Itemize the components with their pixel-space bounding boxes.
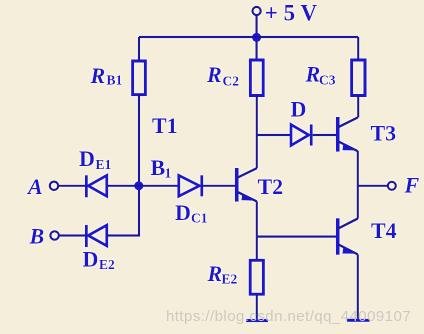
resistor RC2 (250, 60, 263, 96)
wire: T3 emitter down (357, 151, 359, 219)
wire: A to DE1 (58, 185, 85, 187)
diode DE1 (86, 175, 106, 197)
label RB1 (90, 63, 123, 88)
wire: left branch vertical (138, 95, 140, 236)
wire: B1 to DC1 (139, 185, 179, 187)
watermark (166, 308, 424, 325)
svg-text:T2: T2 (258, 174, 284, 199)
svg-text:C1: C1 (191, 211, 208, 226)
resistor RE2 (250, 260, 263, 294)
svg-text:F: F (404, 173, 420, 198)
wire: supply stem (256, 15, 258, 60)
resistor RC3 (352, 60, 365, 96)
wire: bus to RC3 (357, 37, 359, 60)
wire: DE1 to node B1 (107, 185, 139, 187)
wire: branch to diode D (257, 134, 291, 136)
svg-text:D: D (83, 246, 99, 271)
svg-text:B: B (151, 155, 166, 180)
svg-text:R: R (90, 63, 106, 88)
label RE2 (207, 261, 238, 287)
diode D (291, 124, 311, 145)
wire: junction to RE2 (256, 237, 258, 261)
wire: emitter junction to T4 base (257, 236, 336, 238)
wire: DC1 to T2 base (202, 185, 235, 187)
svg-text:B1: B1 (107, 73, 123, 88)
svg-text:D: D (79, 146, 95, 171)
svg-text:R: R (207, 261, 223, 286)
transistor T2 (237, 168, 257, 202)
junction dot on +5V bus (252, 33, 261, 42)
wire: DE2 to left branch (107, 234, 140, 236)
junction dot B1 (134, 181, 143, 190)
wire: bus to RB1 (138, 37, 140, 61)
wire: output F (358, 185, 388, 187)
input A terminal (50, 182, 58, 190)
svg-text:R: R (305, 62, 321, 87)
svg-text:T1: T1 (152, 113, 178, 138)
wire: RC3 to T3 collector (357, 96, 359, 118)
wire: T2 emitter down (256, 201, 258, 236)
svg-text:E1: E1 (96, 157, 112, 172)
label RC2 (206, 62, 239, 88)
transistor T3 (338, 117, 358, 152)
wire: RE2 to ground (256, 294, 258, 320)
diode DC1 (179, 175, 202, 196)
svg-text:E2: E2 (99, 257, 115, 272)
svg-text:R: R (206, 62, 222, 87)
label DE1 (79, 146, 112, 172)
ground (T4 emitter) (347, 319, 370, 322)
node B1 label (151, 155, 172, 181)
svg-text:D: D (175, 200, 191, 225)
input B terminal (50, 231, 58, 239)
svg-text:B: B (29, 224, 45, 249)
svg-text:+ 5 V: + 5 V (265, 0, 318, 25)
svg-text:T4: T4 (371, 218, 397, 243)
transistor T4 (338, 218, 358, 255)
svg-text:C2: C2 (223, 73, 240, 88)
output F terminal (388, 182, 396, 190)
label DE2 (83, 246, 116, 272)
svg-text:A: A (26, 174, 43, 199)
ground (RE2 branch) (246, 319, 268, 322)
svg-text:D: D (291, 97, 307, 122)
svg-text:T3: T3 (371, 121, 397, 146)
svg-text:C3: C3 (319, 73, 336, 88)
wire: B to DE2 (59, 234, 85, 236)
wire: RC2 bottom to T2 collector (256, 96, 258, 169)
label RC3 (305, 62, 336, 88)
wire: T4 emitter to ground (357, 254, 359, 320)
wire: D to T3 base (313, 134, 337, 136)
resistor RB1 (133, 61, 146, 95)
svg-text:1: 1 (165, 166, 172, 181)
wire: top bus (139, 36, 358, 38)
label DC1 (175, 200, 208, 226)
svg-text:E2: E2 (222, 272, 238, 287)
+5 V supply terminal (253, 7, 261, 15)
diode DE2 (86, 225, 106, 247)
